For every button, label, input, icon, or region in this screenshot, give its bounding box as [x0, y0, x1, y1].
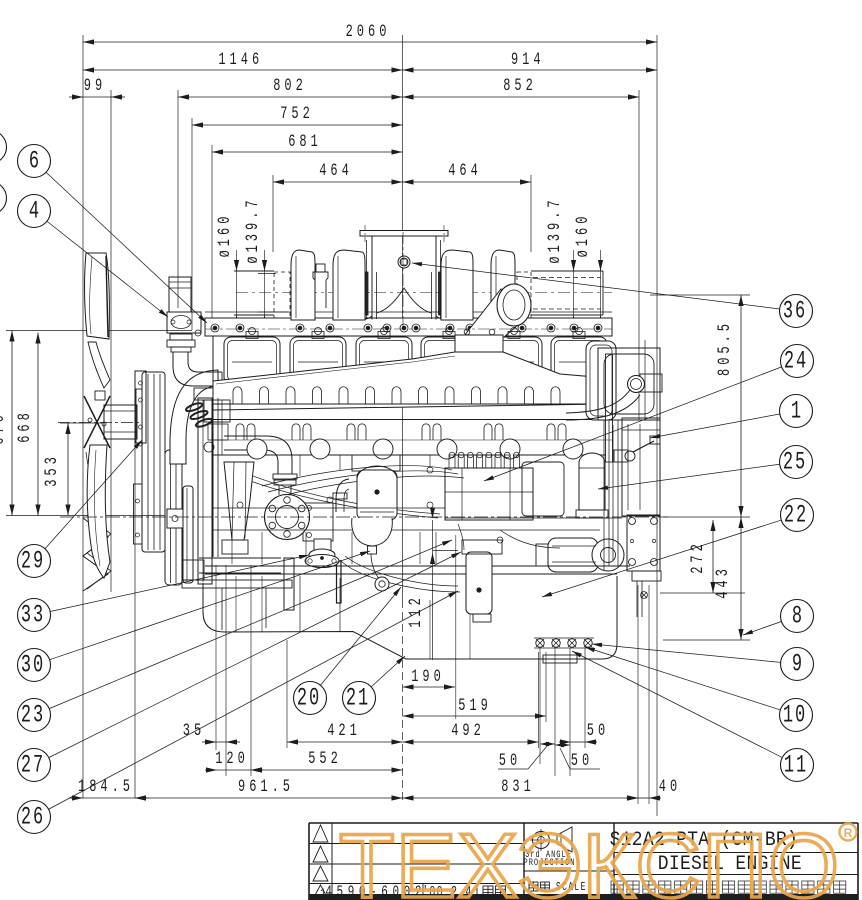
svg-text:20: 20	[297, 685, 321, 713]
svg-text:24: 24	[784, 348, 808, 376]
svg-text:670: 670	[0, 411, 9, 445]
svg-text:25: 25	[783, 449, 807, 477]
svg-text:464: 464	[319, 162, 353, 181]
svg-text:492: 492	[451, 722, 485, 741]
svg-text:27: 27	[21, 752, 45, 780]
svg-text:805.5: 805.5	[716, 320, 735, 376]
svg-text:353: 353	[43, 453, 62, 487]
svg-text:831: 831	[501, 778, 535, 797]
svg-text:99: 99	[84, 77, 106, 96]
svg-text:29: 29	[21, 548, 45, 576]
svg-text:40: 40	[659, 778, 681, 797]
svg-text:33: 33	[21, 602, 45, 630]
svg-text:ø160: ø160	[216, 213, 235, 258]
svg-text:120: 120	[215, 750, 249, 769]
svg-text:668: 668	[16, 409, 35, 443]
svg-text:ø139.7: ø139.7	[244, 196, 263, 263]
svg-text:21: 21	[346, 685, 370, 713]
svg-text:ø139.7: ø139.7	[546, 196, 565, 263]
svg-text:184.5: 184.5	[78, 778, 134, 797]
svg-text:272: 272	[689, 540, 708, 574]
svg-text:10: 10	[783, 702, 807, 730]
svg-text:1146: 1146	[218, 51, 263, 70]
svg-text:R: R	[844, 826, 853, 840]
svg-text:914: 914	[511, 51, 545, 70]
svg-text:552: 552	[308, 750, 342, 769]
svg-text:50: 50	[587, 722, 609, 741]
svg-text:23: 23	[21, 702, 45, 730]
svg-text:9: 9	[792, 651, 802, 679]
svg-text:190: 190	[411, 668, 445, 687]
svg-text:4: 4	[29, 198, 39, 226]
svg-text:112: 112	[407, 594, 426, 628]
svg-text:443: 443	[714, 565, 733, 599]
svg-text:22: 22	[784, 502, 808, 530]
svg-text:30: 30	[21, 652, 45, 680]
svg-text:852: 852	[503, 77, 537, 96]
svg-text:1: 1	[791, 398, 801, 426]
svg-text:36: 36	[783, 298, 807, 326]
svg-text:ТЕХЭКСПО: ТЕХЭКСПО	[339, 816, 840, 900]
svg-text:802: 802	[273, 77, 307, 96]
svg-text:11: 11	[784, 752, 808, 780]
svg-text:2060: 2060	[346, 23, 391, 42]
svg-text:421: 421	[327, 722, 361, 741]
svg-text:26: 26	[21, 804, 45, 832]
svg-text:ø160: ø160	[574, 213, 593, 258]
svg-text:519: 519	[458, 697, 492, 716]
svg-text:50: 50	[571, 752, 593, 771]
svg-text:681: 681	[288, 133, 322, 152]
svg-text:50: 50	[499, 752, 521, 771]
svg-text:464: 464	[448, 162, 482, 181]
svg-text:6: 6	[29, 148, 39, 176]
svg-text:8: 8	[792, 603, 802, 631]
svg-text:961.5: 961.5	[238, 778, 294, 797]
svg-text:752: 752	[280, 105, 314, 124]
